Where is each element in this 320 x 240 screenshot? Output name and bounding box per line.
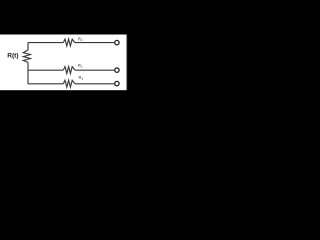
terminal circle middle <box>115 68 119 72</box>
wire: top branch left segment <box>28 42 63 44</box>
white schematic panel <box>0 35 127 91</box>
resistor R3 zigzag <box>63 80 75 87</box>
svg-text:R2: R2 <box>78 63 83 69</box>
letterbox background <box>0 0 128 128</box>
resistor R1 zigzag <box>63 39 75 46</box>
svg-text:R3: R3 <box>79 75 84 81</box>
terminal circle top <box>115 40 119 44</box>
wire: bottom branch left segment <box>28 83 63 85</box>
wire: bottom branch right segment <box>75 83 114 85</box>
wire: left vertical bus top segment <box>27 43 29 50</box>
svg-text:R(t): R(t) <box>7 52 18 59</box>
resistor R2 zigzag <box>63 67 75 74</box>
wire: middle branch left segment <box>28 69 63 71</box>
right edge dark strip <box>127 35 128 91</box>
wire: top branch right segment <box>75 42 114 44</box>
resistor R(t) vertical zigzag <box>23 50 30 63</box>
wire: left vertical bus bottom segment <box>27 62 29 83</box>
terminal circle bottom <box>115 81 119 85</box>
svg-text:R1: R1 <box>78 37 83 43</box>
wire: middle branch right segment <box>75 69 114 71</box>
